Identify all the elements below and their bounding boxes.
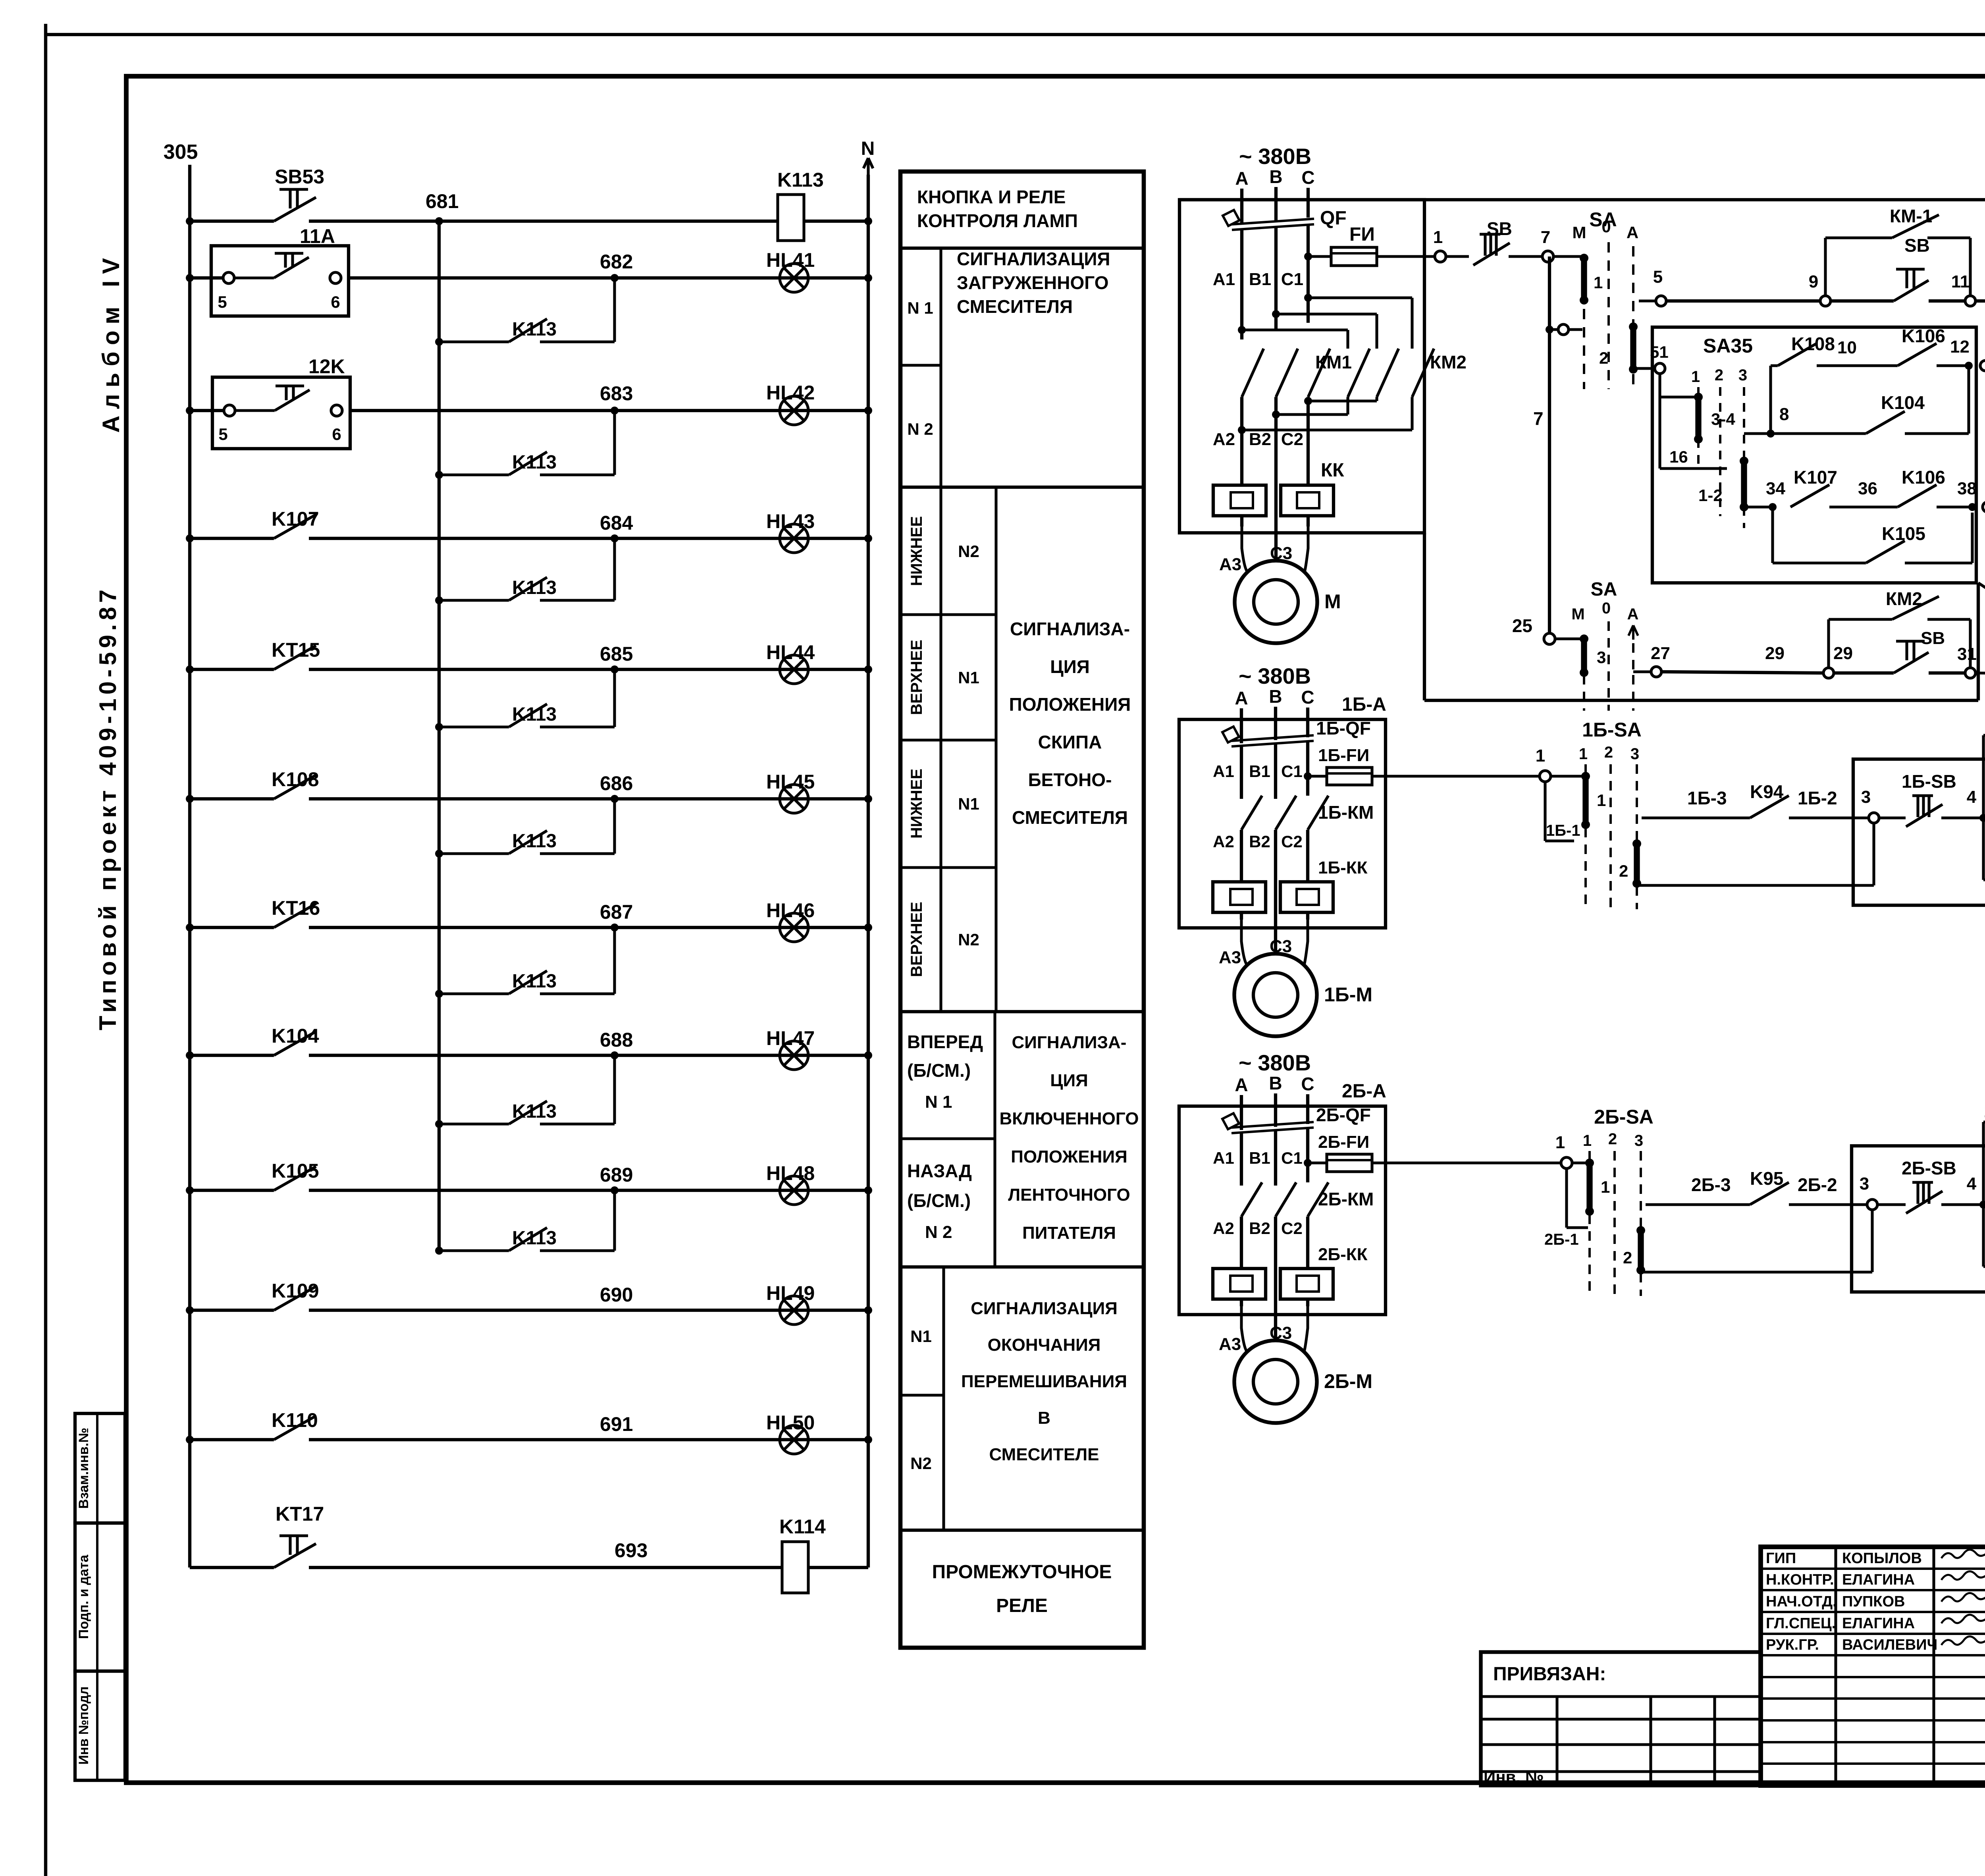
svg-text:N2: N2 xyxy=(910,1454,932,1473)
svg-text:ПИТАТЕЛЯ: ПИТАТЕЛЯ xyxy=(1022,1223,1116,1243)
svg-text:693: 693 xyxy=(615,1539,648,1562)
svg-text:ГЛ.СПЕЦ.: ГЛ.СПЕЦ. xyxy=(1766,1615,1836,1632)
svg-text:ВАСИЛЕВИЧ: ВАСИЛЕВИЧ xyxy=(1842,1637,1937,1653)
thermal elements КК xyxy=(1213,485,1266,516)
svg-text:SB: SB xyxy=(1921,629,1945,648)
svg-text:ПОЛОЖЕНИЯ: ПОЛОЖЕНИЯ xyxy=(1011,1147,1127,1166)
lamp HL48 xyxy=(780,1176,808,1205)
stamp box Взам. инв. № xyxy=(75,1413,125,1523)
svg-text:ЦИЯ: ЦИЯ xyxy=(1050,656,1090,677)
svg-text:1Б-QF: 1Б-QF xyxy=(1316,718,1371,738)
svg-text:2: 2 xyxy=(1623,1248,1632,1267)
2Б-SA contact 1 xyxy=(1572,1161,1587,1164)
svg-text:K106: K106 xyxy=(1902,326,1945,346)
svg-text:БЕТОНО-: БЕТОНО- xyxy=(1028,769,1112,790)
svg-text:Типовой проект 409-10-59.87: Типовой проект 409-10-59.87 xyxy=(94,590,121,1030)
svg-text:B1: B1 xyxy=(1249,762,1270,781)
motor 1Б-M xyxy=(1241,920,1247,965)
SA contact 2 (A position) xyxy=(1630,327,1636,369)
contact K107 xyxy=(274,515,316,538)
contact KM2 holding xyxy=(1827,619,1830,668)
svg-text:C2: C2 xyxy=(1281,832,1303,851)
contact K113 xyxy=(509,831,547,854)
svg-text:2Б-А: 2Б-А xyxy=(1342,1081,1386,1102)
svg-text:K107: K107 xyxy=(272,508,319,530)
svg-text:KT17: KT17 xyxy=(276,1503,324,1525)
svg-text:K113: K113 xyxy=(512,1101,557,1122)
svg-text:691: 691 xyxy=(600,1413,633,1435)
svg-text:КМ1: КМ1 xyxy=(1315,352,1352,372)
svg-text:ВЕРХНЕЕ: ВЕРХНЕЕ xyxy=(908,640,925,715)
svg-text:K105: K105 xyxy=(272,1160,319,1182)
svg-text:1Б-КК: 1Б-КК xyxy=(1318,858,1368,877)
wire 688 rung xyxy=(190,1054,274,1057)
contact 2Б-КМ holding xyxy=(1983,1265,1985,1268)
svg-text:В: В xyxy=(1038,1408,1050,1428)
circuit breaker QF xyxy=(1223,210,1314,230)
svg-text:B2: B2 xyxy=(1249,1219,1270,1238)
node 3 (2Б) xyxy=(1867,1199,1877,1210)
svg-text:N1: N1 xyxy=(958,668,979,687)
svg-text:2Б-КМ: 2Б-КМ xyxy=(1318,1189,1374,1209)
wire 683 rung xyxy=(190,409,229,412)
svg-text:K113: K113 xyxy=(777,169,824,191)
svg-text:HL50: HL50 xyxy=(766,1411,815,1434)
svg-text:СКИПА: СКИПА xyxy=(1038,732,1102,752)
chain 34-36-38: contact K107 xyxy=(1744,505,1773,508)
svg-text:C1: C1 xyxy=(1281,762,1303,781)
svg-text:1Б-FИ: 1Б-FИ xyxy=(1318,746,1369,765)
thermal elements 2Б-КК xyxy=(1213,1269,1266,1299)
limit switch 11A box xyxy=(211,246,349,316)
node 8 / contact K104 xyxy=(1767,430,1775,438)
limit switch 12K box xyxy=(212,377,350,449)
wire 51 to contacts xyxy=(1658,374,1661,469)
contact K105 xyxy=(274,1166,316,1190)
node 688 xyxy=(611,1051,619,1059)
svg-text:КОНТРОЛЯ ЛАМП: КОНТРОЛЯ ЛАМП xyxy=(917,210,1078,231)
contact SB53 xyxy=(274,197,316,221)
svg-text:690: 690 xyxy=(600,1284,633,1306)
thermal elements 1Б-КК xyxy=(1213,882,1266,912)
contact K106 upper xyxy=(1898,343,1937,366)
svg-text:НАЗАД: НАЗАД xyxy=(907,1161,972,1181)
wire row1 9-11 xyxy=(1831,299,1894,303)
svg-text:1: 1 xyxy=(1601,1178,1610,1196)
SA contact 6 xyxy=(1980,361,1985,371)
wire 686 rung xyxy=(190,797,274,800)
wire 1Б-3 / contact K94 xyxy=(1642,816,1750,819)
svg-text:N2: N2 xyxy=(958,542,979,561)
svg-text:K109: K109 xyxy=(272,1280,319,1302)
wire K113 branch xyxy=(439,992,509,995)
lamp HL49 xyxy=(780,1296,808,1325)
2Б-SA contact 2 xyxy=(1638,1230,1644,1270)
svg-text:C: C xyxy=(1301,1074,1314,1094)
svg-text:2Б-3: 2Б-3 xyxy=(1691,1174,1731,1195)
svg-text:51: 51 xyxy=(1650,343,1669,361)
svg-text:ВПЕРЕД: ВПЕРЕД xyxy=(907,1032,983,1052)
svg-text:KT16: KT16 xyxy=(272,897,320,919)
privyazan block xyxy=(1481,1652,1761,1785)
contact K105 xyxy=(1771,507,1774,563)
svg-text:СИГНАЛИЗАЦИЯ: СИГНАЛИЗАЦИЯ xyxy=(957,249,1110,269)
svg-text:5: 5 xyxy=(218,425,227,443)
node 31 xyxy=(1965,668,1975,678)
pole C1 xyxy=(1307,225,1310,323)
svg-text:688: 688 xyxy=(600,1029,633,1051)
svg-text:29: 29 xyxy=(1833,644,1853,663)
svg-text:2Б-SA: 2Б-SA xyxy=(1594,1106,1654,1128)
pole B1 xyxy=(1274,228,1278,331)
stamp box Инв. № подл. xyxy=(75,1671,125,1780)
node 1 xyxy=(1435,251,1446,262)
svg-text:N2: N2 xyxy=(958,930,979,949)
wire tag 1Б-1 xyxy=(1544,782,1546,841)
svg-text:СМЕСИТЕЛЯ: СМЕСИТЕЛЯ xyxy=(1012,807,1128,828)
pushbutton SB stop xyxy=(1480,233,1500,235)
contact K114 (2Б-4/2Б-5) xyxy=(1983,1120,1985,1123)
svg-text:N 2: N 2 xyxy=(925,1222,952,1242)
svg-text:HL41: HL41 xyxy=(766,249,815,271)
contact K104 xyxy=(274,1032,316,1055)
pushbutton 1Б-SB stop xyxy=(1879,816,1906,819)
node 682 xyxy=(611,274,619,282)
svg-text:1Б-M: 1Б-M xyxy=(1324,983,1372,1006)
svg-text:K113: K113 xyxy=(512,577,557,598)
svg-text:681: 681 xyxy=(426,190,459,212)
svg-text:B2: B2 xyxy=(1249,832,1270,851)
title block frame xyxy=(1761,1547,1985,1785)
svg-text:C2: C2 xyxy=(1281,430,1303,449)
poles A1 B1 C1 xyxy=(1240,746,1243,799)
svg-text:686: 686 xyxy=(600,772,633,794)
border outer frame xyxy=(44,24,47,1876)
contact K110 xyxy=(274,1416,316,1440)
svg-text:FИ: FИ xyxy=(1349,224,1375,245)
svg-text:K94: K94 xyxy=(1750,781,1784,802)
svg-text:SB: SB xyxy=(1487,218,1512,239)
node 11 xyxy=(1965,296,1975,306)
svg-text:K113: K113 xyxy=(512,971,557,992)
svg-text:A: A xyxy=(1235,688,1248,708)
svg-text:A3: A3 xyxy=(1219,555,1241,574)
motor M xyxy=(1242,526,1247,572)
svg-text:M: M xyxy=(1324,590,1341,613)
svg-text:38: 38 xyxy=(1957,479,1977,498)
svg-text:A2: A2 xyxy=(1213,832,1234,851)
contact K113 xyxy=(509,319,547,342)
svg-text:КМ-1: КМ-1 xyxy=(1890,206,1932,226)
svg-text:ВКЛЮЧЕННОГО: ВКЛЮЧЕННОГО xyxy=(1000,1109,1139,1128)
wire 2 lower path (2Б) xyxy=(1641,1271,1872,1273)
svg-text:СМЕСИТЕЛЕ: СМЕСИТЕЛЕ xyxy=(989,1445,1099,1464)
svg-text:7: 7 xyxy=(1533,408,1544,429)
svg-text:~ 380B: ~ 380B xyxy=(1239,1050,1311,1075)
svg-text:КМ2: КМ2 xyxy=(1430,352,1467,372)
svg-text:A1: A1 xyxy=(1213,762,1234,781)
SA35 contact 1-2 xyxy=(1741,461,1747,507)
svg-text:B: B xyxy=(1269,1073,1282,1093)
circuit breaker 1Б-QF xyxy=(1222,727,1314,746)
fuse 1Б-FИ xyxy=(1304,772,1312,780)
svg-text:A: A xyxy=(1627,223,1638,242)
wire 685 rung xyxy=(190,668,274,671)
wire 691 rung xyxy=(190,1438,274,1441)
contact 1Б-КМ holding xyxy=(1983,878,1985,881)
wire K113 branch xyxy=(439,1122,509,1125)
svg-text:305: 305 xyxy=(164,141,198,164)
svg-text:9: 9 xyxy=(1809,272,1818,291)
contact KT17 xyxy=(274,1544,316,1568)
contactor KM1 main contacts xyxy=(1242,349,1264,397)
node 9 xyxy=(1820,296,1831,306)
svg-text:КМ2: КМ2 xyxy=(1886,588,1922,609)
svg-text:НИЖНЕЕ: НИЖНЕЕ xyxy=(908,516,925,586)
svg-text:1: 1 xyxy=(1579,745,1588,763)
node 38 xyxy=(1968,503,1976,511)
node 1 (1Б) xyxy=(1540,771,1551,782)
svg-text:Н.КОНТР.: Н.КОНТР. xyxy=(1766,1571,1834,1588)
wire 682 rung xyxy=(190,276,229,280)
svg-text:Альбом IV: Альбом IV xyxy=(98,258,124,433)
wire 5 xyxy=(1639,299,1655,302)
svg-text:ЗАГРУЖЕННОГО: ЗАГРУЖЕННОГО xyxy=(957,272,1109,293)
stamp box Подп. и дата xyxy=(75,1523,125,1671)
svg-text:K105: K105 xyxy=(1882,523,1925,544)
svg-text:6: 6 xyxy=(332,425,341,443)
svg-text:10: 10 xyxy=(1837,338,1857,357)
wire 690 rung xyxy=(190,1309,274,1312)
svg-text:31: 31 xyxy=(1957,644,1977,664)
svg-text:1Б-SA: 1Б-SA xyxy=(1582,719,1642,741)
svg-text:1Б-2: 1Б-2 xyxy=(1798,788,1837,808)
wire 305 left supply bus xyxy=(188,165,191,1568)
svg-text:~ 380B: ~ 380B xyxy=(1239,144,1311,169)
wire 2Б fuse to SA xyxy=(1386,1161,1561,1164)
svg-text:ГИП: ГИП xyxy=(1766,1550,1796,1567)
power circuit box M xyxy=(1179,200,1424,533)
svg-text:2Б-КК: 2Б-КК xyxy=(1318,1245,1368,1264)
contact K113 xyxy=(509,452,547,475)
wire 1 fuse output xyxy=(1442,255,1469,258)
svg-text:РУК.ГР.: РУК.ГР. xyxy=(1766,1637,1819,1653)
svg-text:(Б/СМ.): (Б/СМ.) xyxy=(907,1060,971,1081)
svg-text:27: 27 xyxy=(1651,644,1670,663)
wire 37 bottom xyxy=(1976,673,1985,674)
svg-text:A: A xyxy=(1235,168,1248,189)
contact KT15 xyxy=(274,646,316,669)
svg-text:A1: A1 xyxy=(1213,270,1235,289)
svg-text:0: 0 xyxy=(1601,217,1611,236)
svg-text:3: 3 xyxy=(1597,648,1606,667)
power circuit box 1Б xyxy=(1179,719,1386,928)
svg-text:34: 34 xyxy=(1766,479,1785,498)
wire 681 tap bus xyxy=(437,221,441,1251)
svg-text:N 1: N 1 xyxy=(925,1092,952,1112)
svg-text:N: N xyxy=(861,138,875,159)
svg-text:M: M xyxy=(1573,223,1586,242)
svg-text:ПЕРЕМЕШИВАНИЯ: ПЕРЕМЕШИВАНИЯ xyxy=(961,1372,1127,1391)
svg-text:1Б-SВ: 1Б-SВ xyxy=(1902,771,1956,792)
node 683 xyxy=(611,407,619,415)
svg-text:1Б-КМ: 1Б-КМ xyxy=(1318,802,1374,823)
wire 684 rung xyxy=(190,537,274,540)
svg-text:СМЕСИТЕЛЯ: СМЕСИТЕЛЯ xyxy=(957,296,1073,317)
node 4 (1Б) xyxy=(1979,814,1985,822)
svg-text:K108: K108 xyxy=(272,768,319,791)
SA contact 8 xyxy=(1983,502,1985,512)
svg-text:K106: K106 xyxy=(1902,467,1945,488)
svg-text:N1: N1 xyxy=(958,794,979,813)
svg-text:4: 4 xyxy=(1967,1174,1977,1193)
svg-text:1Б-А: 1Б-А xyxy=(1342,694,1386,715)
lamp HL44 xyxy=(780,655,808,684)
svg-text:K113: K113 xyxy=(512,1228,557,1249)
svg-text:11: 11 xyxy=(1951,272,1970,291)
node 685 xyxy=(611,665,619,673)
wire K113 branch xyxy=(439,473,509,476)
svg-text:7: 7 xyxy=(1541,228,1550,247)
contactor 2Б-КМ main contacts xyxy=(1241,1182,1262,1217)
svg-text:КОПЫЛОВ: КОПЫЛОВ xyxy=(1842,1550,1922,1567)
svg-text:B1: B1 xyxy=(1249,270,1271,289)
power circuit box 2Б xyxy=(1179,1106,1386,1315)
svg-text:36: 36 xyxy=(1858,479,1877,498)
svg-text:Инв №подл: Инв №подл xyxy=(76,1686,91,1764)
node 25 xyxy=(1544,633,1555,644)
legend section 1 signal loaded mixer xyxy=(939,248,942,487)
node 687 xyxy=(611,924,619,931)
node 3 (1Б) xyxy=(1869,813,1879,823)
svg-text:SA: SA xyxy=(1591,579,1617,600)
svg-text:3: 3 xyxy=(1738,366,1747,384)
wire K113 branch xyxy=(439,340,509,343)
node 4 (2Б) xyxy=(1979,1201,1985,1209)
wire N right bus of ladder xyxy=(867,175,870,1568)
node 51 xyxy=(1655,363,1665,374)
pushbutton 1Б-SB start xyxy=(1983,816,1985,819)
svg-text:16: 16 xyxy=(1669,447,1688,466)
lamp HL42 xyxy=(780,396,808,425)
svg-text:2Б-FИ: 2Б-FИ xyxy=(1318,1132,1369,1152)
svg-text:ПУПКОВ: ПУПКОВ xyxy=(1842,1593,1905,1610)
svg-text:K110: K110 xyxy=(272,1409,318,1431)
contactor 1Б-КМ main contacts xyxy=(1241,796,1262,830)
motor 2Б-M xyxy=(1241,1306,1247,1352)
lamp HL45 xyxy=(780,785,808,813)
svg-text:KT15: KT15 xyxy=(272,639,320,661)
svg-text:6: 6 xyxy=(331,293,340,311)
pushbutton 2Б-SB start xyxy=(1983,1203,1985,1206)
svg-text:~ 380B: ~ 380B xyxy=(1239,663,1311,688)
svg-text:A: A xyxy=(1235,1074,1248,1095)
1Б-SA contact 2 xyxy=(1634,844,1640,883)
1Б-SA contact 1 xyxy=(1551,775,1583,777)
svg-text:C3: C3 xyxy=(1270,937,1292,956)
svg-text:687: 687 xyxy=(600,901,633,923)
wire 1Б fuse to SA xyxy=(1386,775,1540,777)
svg-text:ЛЕНТОЧНОГО: ЛЕНТОЧНОГО xyxy=(1008,1185,1130,1205)
bypass branch verticals 1Б xyxy=(1982,735,1985,880)
svg-text:HL45: HL45 xyxy=(766,771,815,793)
svg-text:1: 1 xyxy=(1691,368,1700,386)
pushbutton SB reverse xyxy=(1834,671,1894,675)
svg-text:B1: B1 xyxy=(1249,1149,1270,1167)
wire 27 xyxy=(1633,670,1651,673)
svg-text:1Б-1: 1Б-1 xyxy=(1546,822,1580,839)
svg-text:8: 8 xyxy=(1779,405,1789,424)
pushbutton 2Б-SB stop xyxy=(1878,1203,1906,1206)
svg-text:K114: K114 xyxy=(779,1515,826,1538)
contact K113 xyxy=(509,1228,547,1251)
svg-text:B2: B2 xyxy=(1249,430,1271,449)
svg-text:K104: K104 xyxy=(272,1025,319,1047)
legend section 4 mixing end xyxy=(942,1267,945,1530)
svg-text:C1: C1 xyxy=(1281,270,1303,289)
svg-text:ВЕРХНЕЕ: ВЕРХНЕЕ xyxy=(908,902,925,977)
svg-text:A3: A3 xyxy=(1219,948,1241,967)
svg-text:HL48: HL48 xyxy=(766,1162,815,1184)
supply rail A phase xyxy=(1179,198,1985,201)
svg-text:1Б-3: 1Б-3 xyxy=(1687,788,1727,808)
contactor KM2 main contacts xyxy=(1238,326,1246,334)
svg-text:B: B xyxy=(1269,686,1282,707)
svg-text:1: 1 xyxy=(1433,228,1443,247)
node 689 xyxy=(611,1186,619,1194)
svg-text:ПОЛОЖЕНИЯ: ПОЛОЖЕНИЯ xyxy=(1009,694,1131,715)
legend section 3 belt feeder xyxy=(993,1012,996,1267)
svg-text:Подп. и дата: Подп. и дата xyxy=(76,1554,91,1639)
lamp HL50 xyxy=(780,1425,808,1454)
contact KT16 xyxy=(274,904,316,927)
wire K113 branch xyxy=(439,725,509,728)
svg-text:(Б/СМ.): (Б/СМ.) xyxy=(907,1190,971,1211)
lamp HL41 xyxy=(780,264,808,292)
lamp HL47 xyxy=(780,1041,808,1070)
svg-text:4: 4 xyxy=(1967,787,1977,807)
wire 681 rung xyxy=(190,220,274,223)
svg-text:Инв. №: Инв. № xyxy=(1484,1768,1544,1786)
svg-text:ОКОНЧАНИЯ: ОКОНЧАНИЯ xyxy=(988,1335,1101,1355)
svg-text:C: C xyxy=(1301,687,1314,708)
svg-text:КНОПКА И РЕЛЕ: КНОПКА И РЕЛЕ xyxy=(917,187,1066,207)
svg-text:11A: 11A xyxy=(300,225,335,247)
svg-text:N 2: N 2 xyxy=(907,420,933,438)
lamp HL46 xyxy=(780,913,808,942)
contact K113 xyxy=(509,1101,547,1124)
svg-text:K108: K108 xyxy=(1791,334,1835,354)
selector box SA35 xyxy=(1652,327,1976,583)
node 684 xyxy=(611,534,619,542)
svg-text:25: 25 xyxy=(1512,615,1532,636)
pole A1 xyxy=(1240,230,1243,339)
svg-text:2: 2 xyxy=(1599,349,1608,367)
svg-text:2: 2 xyxy=(1619,862,1628,880)
wire K113 branch xyxy=(439,852,509,855)
svg-text:1-2: 1-2 xyxy=(1698,486,1723,505)
svg-text:2: 2 xyxy=(1604,744,1613,761)
svg-text:5: 5 xyxy=(1653,267,1663,287)
svg-text:ЕЛАГИНА: ЕЛАГИНА xyxy=(1842,1615,1915,1632)
svg-text:K107: K107 xyxy=(1794,467,1837,488)
enclosure lower control box xyxy=(1423,533,1426,700)
lamp HL43 xyxy=(780,524,808,553)
svg-text:2Б-QF: 2Б-QF xyxy=(1316,1105,1371,1125)
node 686 xyxy=(611,795,619,803)
svg-text:A3: A3 xyxy=(1219,1334,1241,1354)
svg-text:M: M xyxy=(1571,605,1584,623)
